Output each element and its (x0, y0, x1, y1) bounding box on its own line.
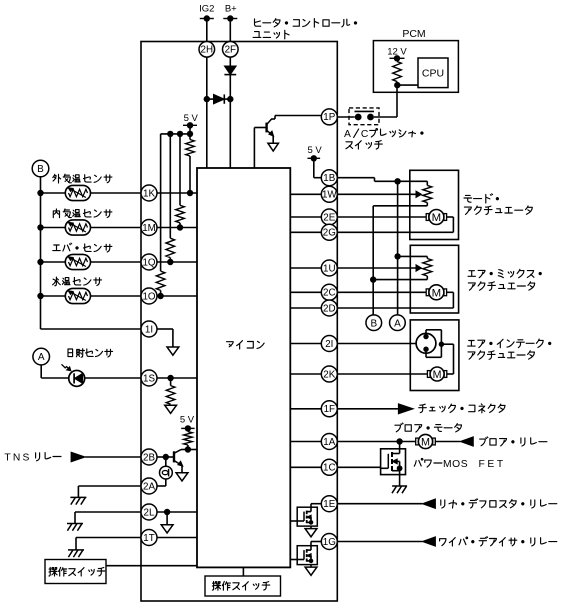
svg-text:A: A (344, 129, 351, 140)
svg-text:1U: 1U (323, 263, 336, 274)
wire Q1 base to microcomputer (254, 127, 266, 129)
junction dot on 1O line (157, 293, 163, 299)
svg-text:A: A (38, 352, 45, 363)
wire evaporator sensor line (41, 261, 142, 263)
wire IG2 rail vertical (206, 19, 208, 169)
wire A line vertical (397, 181, 399, 314)
junction dot Q2 collector node (185, 446, 191, 452)
wire microcomputer to pin 1A (290, 441, 321, 443)
motor M (mode actuator) (426, 214, 429, 221)
wire microcomputer to pin 2I (290, 343, 321, 345)
5V supply tick at Q2 (181, 427, 194, 429)
wire 2C to air mix motor (337, 291, 426, 293)
wire microcomputer to pin 2D (290, 307, 321, 309)
5V supply tick upper-left (183, 124, 197, 126)
wire mode motor return to 2G (447, 216, 454, 218)
transistor Q2 (TNS input) (174, 450, 183, 467)
wiper arrow (air mix) (416, 265, 422, 271)
wire operation switch to microcomputer (106, 565, 197, 567)
wire 1O to microcomputer (157, 295, 197, 297)
svg-text:1A: 1A (323, 437, 335, 448)
sensor common node B (32, 160, 49, 177)
svg-text:1I: 1I (145, 324, 153, 335)
pull-up resistor for 1Q line (169, 134, 171, 238)
wire air mix motor return to 2D (447, 291, 454, 293)
pin 1F (321, 401, 337, 417)
svg-text:M: M (432, 288, 442, 300)
wire 2K to intake motor (337, 373, 427, 375)
pin 2F (223, 42, 239, 58)
label: air intake actuator (line 1) (468, 339, 551, 348)
wire resistor to CPU (397, 84, 418, 86)
svg-text:1S: 1S (143, 373, 155, 384)
wire 1T to microcomputer (157, 537, 197, 539)
arrow to check connector (398, 404, 413, 414)
pin 1W (321, 186, 337, 202)
arrow from TNS relay (71, 452, 85, 462)
wire B+ rail vertical (229, 19, 231, 169)
chassis ground at 1T (68, 549, 84, 551)
arrow to wiper deicer relay (422, 537, 435, 546)
pin 2I (321, 336, 337, 352)
wire microcomputer to pin 1W (290, 193, 321, 195)
svg-text:1K: 1K (143, 188, 155, 199)
pin 1I (141, 321, 157, 337)
air mix actuator box (410, 245, 458, 313)
thermistor: evaporator sensor (65, 254, 90, 269)
wire 1T to chassis ground (76, 537, 141, 539)
operation switch box (bottom) (205, 576, 281, 596)
bias resistor on 1S line (170, 378, 172, 386)
junction dot B+/diode wire (227, 96, 233, 102)
wire 2A to chassis ground (78, 485, 141, 487)
label: water temp sensor (53, 277, 102, 286)
wire 2L to microcomputer (157, 511, 197, 513)
mode actuator box (410, 170, 459, 239)
junction dot 1A / MOSFET drain (396, 438, 402, 444)
wire 1K to microcomputer (157, 192, 197, 194)
junction dot bus/evaporator line (37, 259, 43, 265)
junction dot A line / air-mix pot (394, 253, 400, 259)
label: mode actuator (line 1) (464, 194, 499, 203)
wire 2I to rotary contact (337, 343, 416, 345)
svg-text:2L: 2L (144, 507, 155, 518)
svg-text:1P: 1P (323, 112, 335, 123)
svg-text:1B: 1B (323, 173, 335, 184)
switch contact left (355, 114, 362, 121)
label: power MOS FET (414, 459, 442, 468)
wire 1C to MOSFET gate (337, 466, 380, 468)
wire 1U wiper (337, 267, 416, 269)
A/C pressure switch dashed enclosure (349, 108, 379, 125)
pin 1A (321, 434, 337, 450)
wire Q2 emitter down (181, 466, 183, 473)
5V supply tick near 1B (308, 157, 321, 159)
pin 1S (141, 370, 157, 386)
label: blower relay (480, 437, 547, 446)
signal ground arrow for 1I (167, 347, 179, 355)
label: heater control unit (line 2) (253, 30, 289, 39)
wire 1M to microcomputer (157, 227, 197, 229)
motor M (air intake actuator) (427, 371, 430, 378)
svg-text:1F: 1F (324, 404, 335, 415)
label: solar sensor (68, 349, 113, 358)
junction dot bus/1M pull-up (177, 131, 183, 137)
potentiometer: mode actuator (426, 181, 428, 185)
svg-text:1W: 1W (322, 190, 337, 201)
svg-text:1O: 1O (142, 291, 155, 302)
wire microcomputer to pin 2C (290, 291, 321, 293)
svg-text:IG2: IG2 (199, 3, 214, 14)
svg-text:B+: B+ (225, 3, 237, 14)
wire microcomputer to pin 2G (290, 231, 321, 233)
svg-text:M: M (432, 212, 442, 224)
pull-up resistor at Q2 collector (187, 428, 189, 431)
label: operation switch (bottom) (212, 581, 269, 590)
wire 1S to microcomputer (157, 377, 197, 379)
junction dot on 1M line (177, 224, 183, 230)
label: A/C pressure switch (line 2) (346, 141, 382, 150)
wire TNS to 2B (85, 456, 141, 458)
photodiode: solar sensor (69, 370, 85, 386)
svg-text:1T: 1T (143, 533, 154, 544)
svg-text:2C: 2C (323, 288, 336, 299)
junction dot bus/outside-air line (37, 190, 43, 196)
wire outside air temp sensor line (41, 192, 142, 194)
svg-text:MOS: MOS (443, 459, 468, 470)
svg-text:A: A (394, 318, 401, 329)
junction dot on 2B line (163, 454, 169, 460)
wire 1I to internal ground arrow (157, 328, 173, 330)
signal ground arrow below Q2 (176, 473, 188, 481)
12V supply tick (390, 57, 405, 59)
label: inside air temp sensor (53, 209, 112, 218)
svg-text:1M: 1M (142, 223, 156, 234)
svg-text:M: M (433, 369, 442, 381)
pin 1P (321, 109, 337, 125)
label: A/C pressure switch (line 1) (344, 129, 423, 141)
pull-up resistor for 1O line (160, 134, 162, 271)
power MOS FET (381, 442, 406, 486)
wire Q1 emitter down (272, 136, 274, 144)
pin 1C (321, 459, 337, 475)
wire 2E to mode motor (337, 216, 426, 218)
wire 1G to wiper deicer relay (337, 541, 422, 543)
junction dot on 1K line (187, 190, 193, 196)
IG2 supply tick (200, 18, 214, 20)
junction dot on 1S line (167, 375, 173, 381)
label: air intake actuator (line 2) (468, 351, 534, 360)
junction dot bus/inside-air line (37, 224, 43, 230)
wiper arrow (mode) (416, 191, 422, 197)
diode D1 on B+ rail (cathode down) (224, 66, 236, 75)
wire 1Q to microcomputer (157, 261, 197, 263)
svg-text:2I: 2I (325, 339, 333, 350)
wire microcomputer to bottom operation switch (242, 567, 244, 576)
svg-text:2A: 2A (143, 481, 155, 492)
light arrow into photodiode (62, 364, 71, 371)
svg-text:2E: 2E (323, 212, 335, 223)
junction dot on 1Q line (167, 259, 173, 265)
junction dot B line / air-mix pot bottom (370, 276, 376, 282)
switch contact right (367, 114, 374, 121)
transistor Q1 (open-collector output to PCM) (267, 119, 274, 136)
pin 2E (321, 209, 337, 225)
svg-text:B: B (370, 318, 377, 329)
wire sensor common bus (40, 177, 42, 329)
svg-text:FET: FET (479, 459, 506, 470)
svg-text:C: C (361, 129, 369, 140)
wire bus to pin 1I (41, 328, 142, 330)
junction dot IG2/diode wire (204, 96, 210, 102)
air intake actuator box (410, 320, 459, 391)
svg-text:1E: 1E (323, 499, 335, 510)
svg-text:M: M (421, 436, 430, 448)
label: microcomputer (maikon) (227, 341, 265, 349)
motor M (blower motor) (416, 438, 419, 445)
solar sensor node A (33, 348, 50, 365)
MOSFET driver for 1G (290, 542, 321, 568)
svg-text:B: B (37, 164, 44, 175)
label: rear defroster relay (441, 499, 557, 508)
label: evaporator sensor (53, 243, 112, 252)
pin 1O (141, 288, 157, 304)
label: air mix actuator (line 2) (468, 282, 534, 291)
pin 2L (141, 504, 157, 520)
wire PCM down to pressure switch (396, 85, 398, 117)
signal ground arrow below 1S resistor (165, 405, 177, 413)
pin 2B (141, 449, 157, 465)
svg-text:TNS: TNS (4, 453, 31, 464)
label: operation switch (left) (49, 567, 105, 576)
svg-text:5 V: 5 V (307, 145, 322, 156)
chassis ground at 2L (67, 523, 83, 525)
wire photodiode to 1S (85, 377, 141, 379)
wire 1P to switch (337, 116, 355, 118)
svg-text:2H: 2H (201, 45, 214, 56)
wire microcomputer to pin 2E (290, 216, 321, 218)
label: blower motor (395, 423, 462, 432)
wire 5V bus horizontal (161, 133, 190, 135)
wire A line to air-mix pot top (398, 255, 428, 257)
junction dot on 2L line (164, 509, 170, 515)
heater control unit box (141, 42, 337, 602)
wire water temp sensor line (41, 295, 142, 297)
switch contact bar (355, 110, 375, 112)
label: mode actuator (line 2) (464, 206, 532, 215)
wire 1B to actuator pots (337, 177, 374, 179)
junction dot at PCM resistor bottom (394, 82, 400, 88)
junction dot rotary loop (439, 342, 444, 347)
arrow from blower relay (460, 437, 473, 446)
wire mode pot bottom to B line (373, 205, 427, 207)
wire 2B to transistor base (157, 456, 173, 458)
pull-up resistor for 1K line (186, 140, 195, 157)
wire B line to air-mix pot bottom (373, 279, 427, 281)
pin 2A (141, 478, 157, 494)
svg-text:1Q: 1Q (142, 257, 155, 268)
pin 1G (321, 534, 337, 550)
label: wiper deicer relay (440, 537, 557, 546)
thermistor: outside air temp sensor (65, 185, 90, 200)
junction dot 1B wire / A line (394, 178, 400, 184)
microcomputer box (197, 168, 290, 567)
label: check connector (419, 404, 505, 413)
svg-text:2F: 2F (225, 45, 236, 56)
svg-text:1G: 1G (323, 537, 336, 548)
wire 5V drop to bus (189, 125, 191, 134)
arrow to rear defroster relay (422, 499, 435, 508)
pull-up resistor for 1M line (179, 134, 181, 205)
signal ground arrow below Q1 (268, 143, 279, 151)
junction dot bus/1K pull-up (187, 131, 193, 137)
label: outside air temp sensor (53, 174, 112, 183)
wire blower motor to relay arrow (435, 441, 460, 443)
pin 2C (321, 284, 337, 300)
operation switch box (left) (45, 560, 106, 584)
thermistor: water temp sensor (65, 288, 90, 303)
pin 2G (321, 224, 337, 240)
wire microcomputer to pin 1F (290, 408, 321, 410)
pin 2H (199, 42, 215, 58)
potentiometer: air mix actuator (426, 256, 428, 258)
wire 1A to blower motor (337, 441, 415, 443)
pin 1K (141, 185, 157, 201)
chassis ground at 2A (70, 496, 86, 498)
junction dot bus/water-temp line (37, 293, 43, 299)
wire microcomputer to pin 2K (290, 373, 321, 375)
svg-text:PCM: PCM (402, 28, 425, 40)
signal ground arrow below 1G MOSFET (305, 567, 317, 575)
svg-text:CPU: CPU (422, 68, 444, 80)
diode D2 between rails (pointing right) (207, 98, 214, 100)
junction dot bus/1Q pull-up (167, 131, 173, 137)
pin 1B (321, 170, 337, 186)
wire 5V to 1B (313, 158, 315, 177)
wire inside air temp sensor line (41, 227, 142, 229)
wire 1W wiper (337, 193, 416, 195)
wire 2L to chassis ground (75, 511, 141, 513)
wire 1F to check connector (337, 408, 399, 410)
wire B line vertical (372, 206, 374, 315)
wire rotary loop to intake motor (441, 343, 453, 345)
pin 1Q (141, 254, 157, 270)
wire 1E to rear defroster relay (337, 503, 422, 505)
signal ground arrow below 2L (161, 525, 173, 533)
chassis ground below power MOSFET (392, 485, 407, 487)
wire Q2 collector to microcomputer (181, 449, 197, 451)
node A (actuator supply) (390, 315, 406, 331)
label: air mix actuator (line 1) (468, 269, 541, 277)
wire microcomputer to pin 1U (290, 267, 321, 269)
resistor in PCM (pull-up) (396, 58, 398, 61)
pin 1E (321, 496, 337, 512)
B+ supply tick (223, 18, 237, 20)
wire microcomputer to pin 1C (290, 466, 321, 468)
wire 2L junction down (166, 512, 168, 525)
svg-text:2K: 2K (323, 369, 335, 380)
node B (actuator common) (366, 315, 382, 331)
pin 2D (321, 300, 337, 316)
pin 1T (141, 530, 157, 546)
pin 1U (321, 260, 337, 276)
indicator lamp between 2B and 2A (160, 457, 173, 479)
svg-text:1C: 1C (323, 463, 336, 474)
label: heater control unit (line 1) (255, 19, 357, 28)
PCM box (373, 41, 458, 93)
pin 1M (141, 220, 157, 236)
wire 1P to transistor collector (275, 115, 321, 117)
rotary position switch (air intake) (416, 330, 441, 358)
motor M (air mix actuator) (426, 289, 429, 296)
wire lamp to 2A (165, 479, 167, 486)
svg-text:2B: 2B (143, 452, 155, 463)
MOSFET driver for 1E (290, 504, 321, 529)
svg-text:2G: 2G (323, 228, 336, 239)
CPU box (418, 58, 448, 88)
svg-text:5 V: 5 V (180, 415, 195, 426)
pin 2K (321, 366, 337, 382)
signal ground arrow below 1E MOSFET (305, 529, 317, 537)
svg-text:2D: 2D (323, 303, 336, 314)
thermistor: inside air temp sensor (65, 220, 90, 235)
wire A to photodiode (40, 365, 42, 378)
